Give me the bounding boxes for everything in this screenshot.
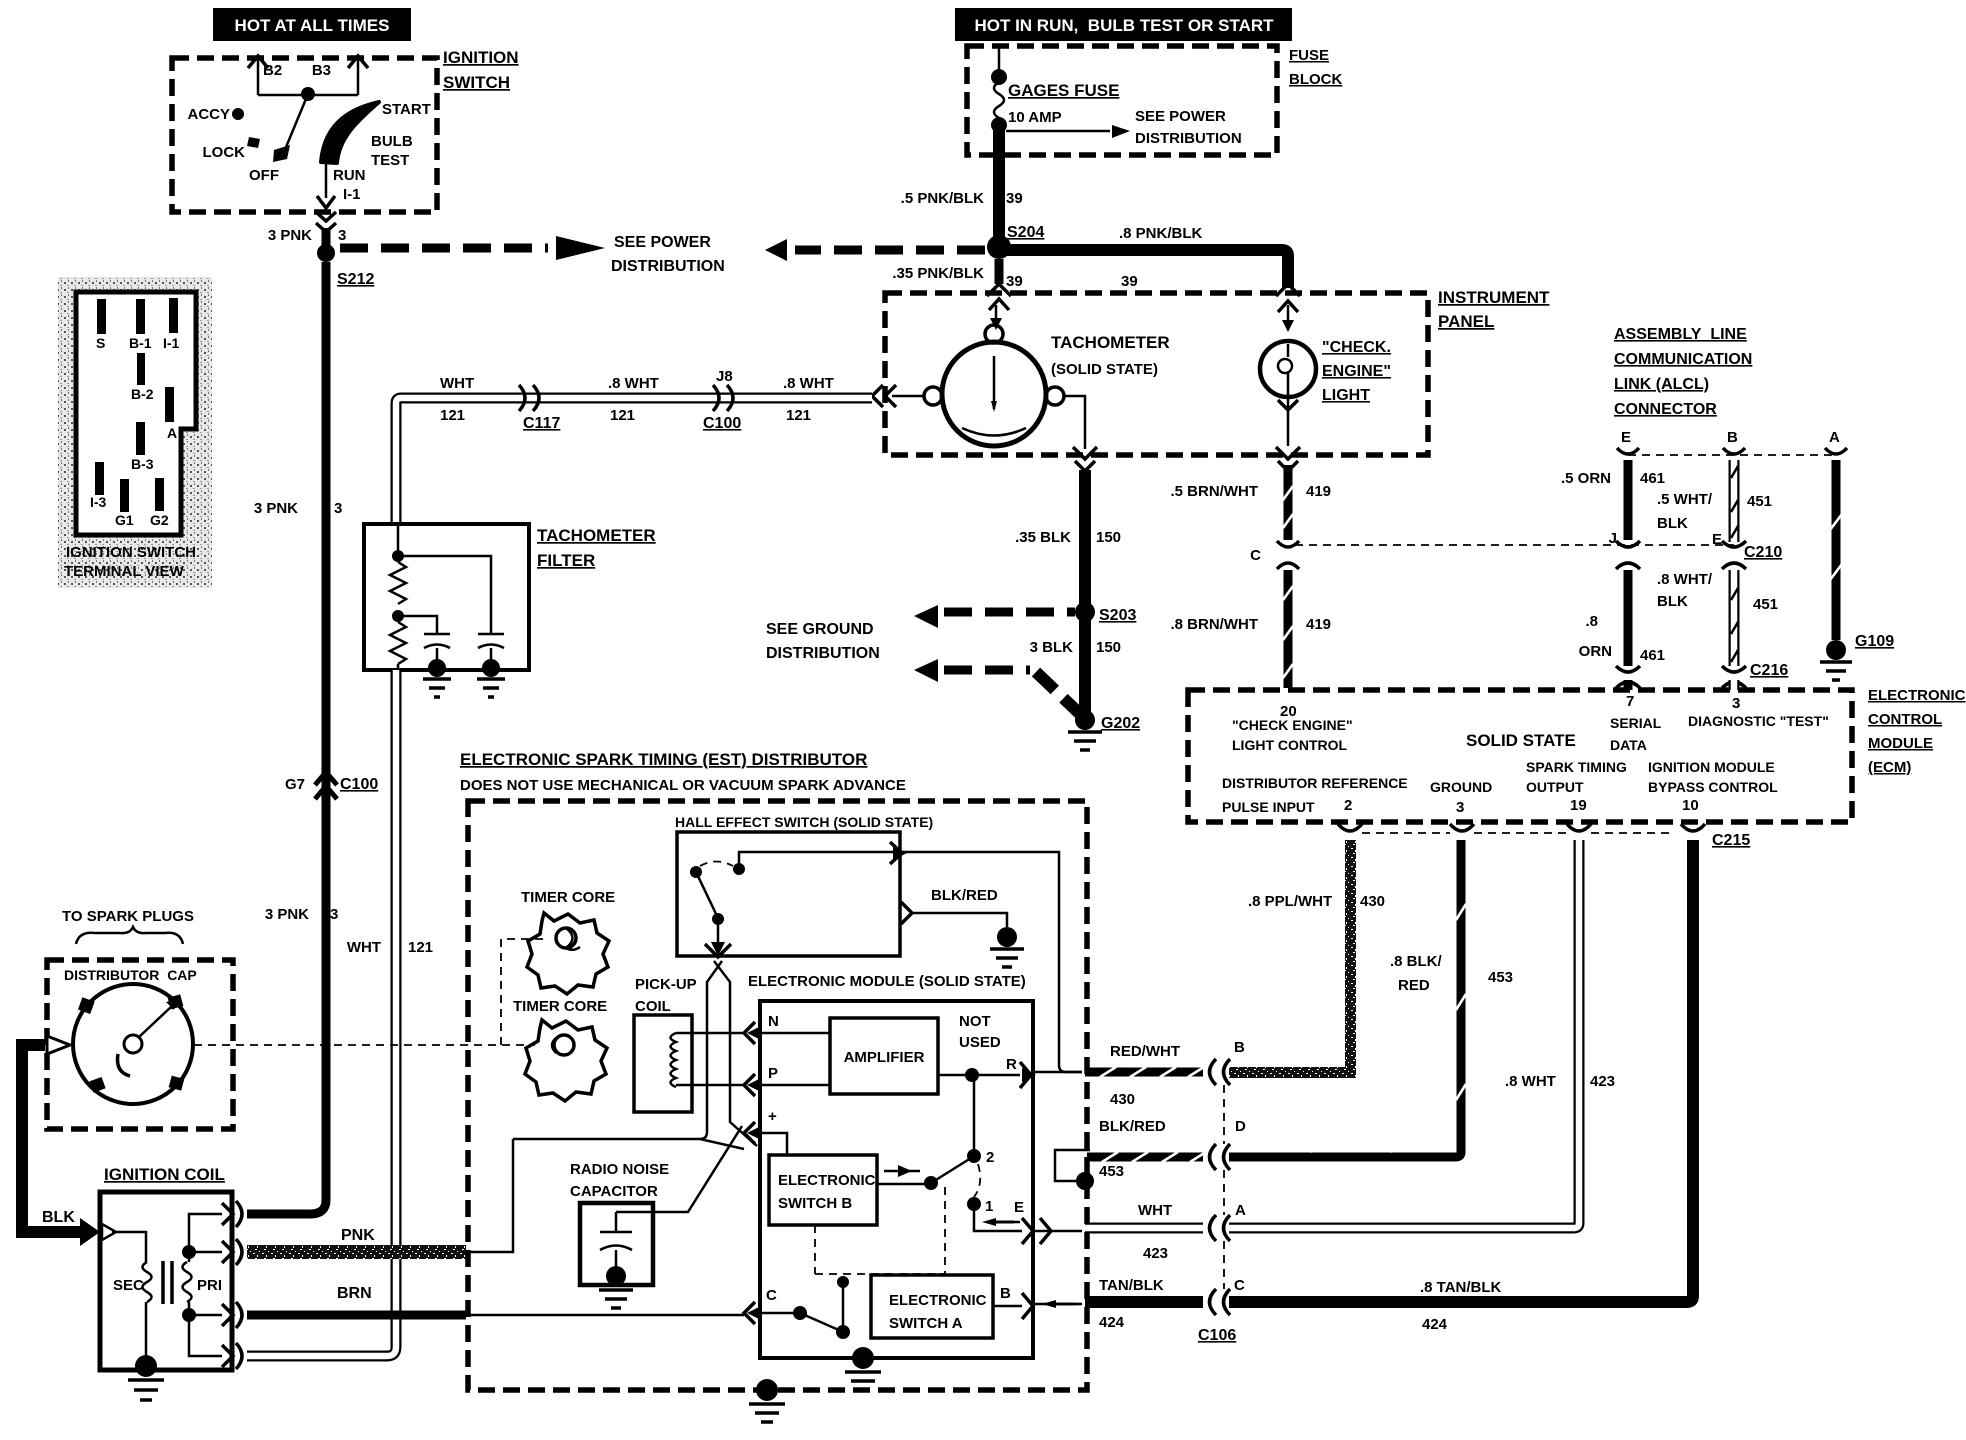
svg-text:MODULE: MODULE — [1868, 735, 1933, 752]
svg-text:"CHECK ENGINE": "CHECK ENGINE" — [1232, 717, 1353, 733]
svg-text:BULB: BULB — [371, 133, 413, 150]
svg-text:BLK: BLK — [1657, 515, 1688, 532]
svg-text:.5 WHT/: .5 WHT/ — [1657, 491, 1713, 508]
terminal view caption — [64, 544, 196, 580]
ignition coil box — [100, 1192, 232, 1370]
module plus input — [744, 1108, 787, 1155]
svg-text:3: 3 — [334, 500, 342, 517]
wire tach left to panel edge — [872, 385, 924, 407]
wire RUN to I-1 exit — [317, 163, 366, 208]
timer core dashed link — [501, 939, 544, 1045]
hot at all times label box — [213, 8, 411, 41]
svg-text:TIMER CORE: TIMER CORE — [521, 889, 615, 906]
svg-text:DISTRIBUTION: DISTRIBUTION — [1135, 130, 1242, 147]
check engine light bulb — [1260, 341, 1316, 397]
not used label — [959, 1013, 1001, 1051]
svg-text:FILTER: FILTER — [537, 551, 595, 570]
svg-text:IGNITION: IGNITION — [443, 48, 519, 67]
svg-text:DISTRIBUTOR REFERENCE: DISTRIBUTOR REFERENCE — [1222, 775, 1408, 791]
hall switch output wire top — [739, 842, 1082, 1072]
alcl chevron B — [1723, 448, 1745, 454]
svg-text:C117: C117 — [523, 415, 560, 432]
svg-text:OFF: OFF — [249, 167, 279, 184]
svg-text:TAN/BLK: TAN/BLK — [1099, 1277, 1164, 1294]
svg-text:BLOCK: BLOCK — [1289, 71, 1342, 88]
svg-text:ACCY: ACCY — [187, 106, 230, 123]
svg-text:C100: C100 — [703, 415, 741, 432]
svg-text:.5 PNK/BLK: .5 PNK/BLK — [901, 190, 985, 207]
svg-text:3 PNK: 3 PNK — [268, 227, 312, 244]
hall switch contact right — [733, 863, 745, 875]
hall switch throw arc — [700, 862, 733, 867]
timer core upper — [521, 889, 615, 994]
wire tach right down — [1064, 396, 1085, 449]
connector C106 — [1198, 1059, 1236, 1344]
wire wht down to filter — [391, 410, 402, 526]
svg-text:C100: C100 — [340, 776, 378, 793]
svg-text:10 AMP: 10 AMP — [1008, 109, 1062, 126]
tachometer body — [924, 325, 1064, 446]
contact LOCK — [247, 137, 260, 148]
see ground distribution label — [766, 621, 880, 662]
terminal A — [165, 387, 174, 422]
hall switch contact left — [690, 866, 702, 878]
rotor shaft dashed link — [194, 1044, 535, 1046]
svg-text:39: 39 — [1006, 190, 1023, 207]
svg-text:P: P — [768, 1065, 778, 1082]
svg-text:IGNITION COIL: IGNITION COIL — [104, 1165, 225, 1184]
resistor R2 filter — [390, 622, 406, 664]
svg-text:CONTROL: CONTROL — [1868, 711, 1942, 728]
svg-text:LIGHT CONTROL: LIGHT CONTROL — [1232, 737, 1348, 753]
svg-text:TEST: TEST — [371, 152, 409, 169]
svg-text:N: N — [768, 1013, 779, 1030]
svg-text:TACHOMETER: TACHOMETER — [537, 526, 656, 545]
wire .8 ppl/wht 430 — [1229, 840, 1385, 1078]
svg-text:.8 TAN/BLK: .8 TAN/BLK — [1420, 1279, 1502, 1296]
switch b throw arc — [974, 1164, 980, 1197]
terminal G2 — [155, 478, 164, 511]
est distributor title — [460, 750, 906, 794]
hall switch lever — [697, 874, 717, 916]
wire .5 orn 461 — [1561, 460, 1665, 540]
svg-text:ELECTRONIC: ELECTRONIC — [778, 1172, 876, 1189]
wire brn coil to est — [247, 1285, 466, 1315]
svg-text:B-1: B-1 — [129, 335, 152, 351]
svg-text:RUN: RUN — [333, 167, 366, 184]
svg-text:424: 424 — [1422, 1316, 1448, 1333]
svg-text:RED/WHT: RED/WHT — [1110, 1043, 1180, 1060]
svg-text:TO SPARK PLUGS: TO SPARK PLUGS — [62, 908, 194, 925]
svg-text:150: 150 — [1096, 639, 1121, 656]
ignition switch box — [172, 58, 437, 212]
wire blk alcl A to ground — [1830, 460, 1842, 640]
svg-text:3: 3 — [338, 227, 346, 244]
terminal S — [97, 299, 106, 334]
contact ACCY — [232, 108, 244, 120]
svg-text:OUTPUT: OUTPUT — [1526, 779, 1584, 795]
wire .8 tan/blk 424 — [1229, 840, 1693, 1333]
svg-text:2: 2 — [1344, 797, 1352, 814]
svg-text:IGNITION MODULE: IGNITION MODULE — [1648, 759, 1775, 775]
svg-text:3 BLK: 3 BLK — [1030, 639, 1074, 656]
wire .5 wht/blk 451 — [1657, 460, 1772, 542]
svg-text:G202: G202 — [1101, 715, 1140, 732]
svg-text:SEE POWER: SEE POWER — [1135, 108, 1226, 125]
svg-text:RED: RED — [1398, 977, 1430, 994]
svg-text:COMMUNICATION: COMMUNICATION — [1614, 351, 1752, 368]
node fuse top — [991, 69, 1007, 85]
radio noise capacitor element — [599, 1212, 633, 1308]
est distributor box — [468, 801, 1087, 1390]
wire 3 blk 150 — [1030, 612, 1121, 716]
svg-text:R: R — [1006, 1056, 1017, 1073]
tachometer filter label — [537, 526, 656, 570]
bulb test start crescent — [321, 102, 379, 163]
svg-text:GAGES FUSE: GAGES FUSE — [1008, 81, 1119, 100]
svg-text:.8 BRN/WHT: .8 BRN/WHT — [1171, 616, 1259, 633]
twisted pair into plus input — [513, 1126, 744, 1212]
coil core — [163, 1261, 172, 1304]
distributor cap box — [47, 960, 233, 1129]
wire wht 121 down to coil — [247, 670, 433, 1356]
alcl chevron E — [1617, 448, 1639, 454]
connector C117 — [519, 385, 560, 432]
svg-text:BRN: BRN — [337, 1285, 372, 1302]
wire .8 wht/blk 451 — [1657, 570, 1778, 666]
svg-text:CAPACITOR: CAPACITOR — [570, 1183, 658, 1200]
wire to tach top — [990, 305, 1002, 330]
hall switch bottom wire — [705, 925, 731, 957]
wire bus B2-B3 — [258, 94, 358, 97]
svg-text:.8 WHT: .8 WHT — [1505, 1073, 1556, 1090]
svg-text:+: + — [768, 1108, 777, 1125]
wire .8 orn 461 — [1579, 570, 1665, 666]
ignition switch terminal view stipple background — [58, 277, 212, 588]
svg-text:SEE POWER: SEE POWER — [614, 234, 711, 251]
svg-text:B2: B2 — [263, 62, 282, 79]
wire .8 wht 423 — [1229, 840, 1615, 1228]
svg-text:SOLID STATE: SOLID STATE — [1466, 731, 1576, 750]
terminal B2 — [248, 56, 282, 95]
svg-text:PULSE INPUT: PULSE INPUT — [1222, 799, 1315, 815]
coil terminal 2 chevron — [222, 1239, 242, 1265]
svg-text:.8 WHT: .8 WHT — [783, 375, 834, 392]
svg-text:PNK: PNK — [341, 1227, 375, 1244]
svg-text:121: 121 — [786, 407, 811, 424]
svg-text:3: 3 — [1732, 695, 1740, 712]
instrument panel label — [1438, 288, 1550, 331]
ecm distributor reference pulse input pin 2 — [1222, 775, 1408, 815]
connector chevrons tach ground exit — [1073, 447, 1097, 471]
svg-text:.35 BLK: .35 BLK — [1015, 529, 1071, 546]
svg-text:.5 BRN/WHT: .5 BRN/WHT — [1171, 483, 1259, 500]
power distribution arrow from S204 — [765, 239, 985, 261]
see power distribution note — [1135, 108, 1242, 147]
svg-text:ELECTRONIC SPARK TIMING (EST): ELECTRONIC SPARK TIMING (EST) DISTRIBUTO… — [460, 750, 867, 769]
svg-text:LOCK: LOCK — [203, 144, 246, 161]
svg-text:461: 461 — [1640, 647, 1665, 664]
svg-text:.8 WHT: .8 WHT — [608, 375, 659, 392]
ecm pin 7 serial data — [1610, 693, 1662, 753]
wire 3 pnk main feed — [247, 262, 342, 1214]
svg-text:3 PNK: 3 PNK — [254, 500, 298, 517]
svg-text:S212: S212 — [337, 271, 374, 288]
svg-text:SWITCH B: SWITCH B — [778, 1195, 852, 1212]
ecm ignition module bypass control pin 10 — [1648, 759, 1778, 814]
svg-text:DISTRIBUTION: DISTRIBUTION — [766, 645, 880, 662]
svg-text:S: S — [96, 335, 105, 351]
svg-text:10: 10 — [1682, 797, 1699, 814]
ecm box — [1188, 690, 1852, 822]
capacitor C1 filter — [398, 616, 451, 697]
svg-text:DISTRIBUTOR CAP: DISTRIBUTOR CAP — [64, 967, 197, 983]
switch mechanical dashed links — [815, 1187, 945, 1274]
svg-text:150: 150 — [1096, 529, 1121, 546]
svg-text:BLK/RED: BLK/RED — [1099, 1118, 1166, 1135]
svg-text:DOES NOT USE MECHANICAL OR VAC: DOES NOT USE MECHANICAL OR VACUUM SPARK … — [460, 777, 906, 794]
svg-text:PICK-UP: PICK-UP — [635, 976, 697, 993]
fuse block label — [1289, 47, 1342, 88]
svg-text:E: E — [1014, 1199, 1024, 1216]
svg-text:CONNECTOR: CONNECTOR — [1614, 401, 1717, 418]
wire blk coil to cap — [16, 1045, 100, 1246]
svg-text:3: 3 — [330, 906, 338, 923]
svg-text:39: 39 — [1006, 273, 1023, 290]
wire 3 PNK from ignition switch — [322, 228, 331, 253]
svg-text:SWITCH: SWITCH — [443, 73, 510, 92]
see power distribution label — [611, 234, 725, 275]
switch b contact 1 — [967, 1197, 993, 1215]
svg-text:DATA: DATA — [1610, 737, 1647, 753]
radio noise capacitor box — [580, 1203, 653, 1285]
svg-text:S204: S204 — [1007, 224, 1044, 241]
svg-text:430: 430 — [1110, 1091, 1135, 1108]
svg-text:.8 WHT/: .8 WHT/ — [1657, 571, 1713, 588]
node filter mid — [392, 610, 404, 622]
svg-text:TACHOMETER: TACHOMETER — [1051, 333, 1170, 352]
svg-text:HALL EFFECT SWITCH (SOLID STAT: HALL EFFECT SWITCH (SOLID STATE) — [675, 814, 933, 830]
svg-text:.8 PPL/WHT: .8 PPL/WHT — [1248, 893, 1332, 910]
svg-text:BLK: BLK — [42, 1209, 75, 1226]
svg-text:COIL: COIL — [635, 998, 671, 1015]
svg-text:G7: G7 — [285, 776, 305, 793]
svg-text:D: D — [1235, 1118, 1246, 1135]
connector C215 — [1338, 824, 1750, 849]
svg-text:E: E — [1621, 429, 1631, 446]
terminal B-2 — [137, 353, 145, 385]
svg-text:E: E — [1712, 531, 1722, 548]
coil input terminal — [102, 1224, 116, 1240]
wire .8 brn/wht 419 — [1171, 570, 1332, 688]
svg-text:.8 BLK/: .8 BLK/ — [1390, 953, 1443, 970]
svg-text:121: 121 — [440, 407, 465, 424]
svg-text:RADIO NOISE: RADIO NOISE — [570, 1161, 669, 1178]
filter internal wire — [397, 524, 400, 552]
svg-text:C: C — [1250, 547, 1261, 564]
module input N — [744, 1013, 779, 1044]
pick-up coil box — [634, 1015, 692, 1112]
svg-text:J: J — [1609, 530, 1617, 547]
svg-text:SERIAL: SERIAL — [1610, 715, 1662, 731]
ecm ground pin 3 — [1430, 779, 1492, 816]
svg-text:WHT: WHT — [347, 939, 381, 956]
connector C216 — [1616, 662, 1788, 688]
svg-text:1: 1 — [985, 1198, 993, 1215]
ground G202 — [1068, 710, 1140, 750]
svg-text:ORN: ORN — [1579, 643, 1612, 660]
pick-up coil winding — [671, 1033, 677, 1087]
svg-text:HOT AT ALL TIMES: HOT AT ALL TIMES — [235, 16, 390, 35]
wire wht/blk into ecm pin3 — [1729, 680, 1740, 690]
svg-text:BYPASS CONTROL: BYPASS CONTROL — [1648, 779, 1778, 795]
module ground — [845, 1347, 881, 1390]
cap contact upper right — [168, 994, 184, 1009]
connector C100 on wht — [703, 368, 741, 432]
wire into fuse — [998, 46, 1001, 75]
hall blk/red ground — [990, 927, 1024, 967]
cap contact upper left — [78, 997, 95, 1014]
svg-text:C210: C210 — [1744, 544, 1782, 561]
switch b wire and pivot — [877, 1158, 971, 1190]
pick-up coil wire N — [676, 1032, 744, 1035]
svg-text:C: C — [766, 1287, 777, 1304]
svg-text:ELECTRONIC: ELECTRONIC — [1868, 687, 1966, 704]
terminal B-1 — [136, 299, 145, 334]
wire wht 121 horizontal run — [396, 375, 872, 424]
svg-text:.8: .8 — [1585, 613, 1598, 630]
terminal I-3 — [95, 462, 104, 495]
node fuse bottom — [991, 117, 1007, 133]
hot in run bulb test or start label box — [955, 8, 1292, 41]
svg-text:BLK: BLK — [1657, 593, 1688, 610]
check engine light label — [1322, 339, 1391, 404]
svg-text:AMPLIFIER: AMPLIFIER — [844, 1049, 925, 1066]
arrow to power distribution — [1006, 125, 1130, 138]
alcl face line — [1628, 454, 1836, 456]
svg-text:DISTRIBUTION: DISTRIBUTION — [611, 258, 725, 275]
svg-text:PANEL: PANEL — [1438, 312, 1494, 331]
svg-text:19: 19 — [1570, 797, 1587, 814]
cap contact lower right — [169, 1076, 185, 1091]
wire P to amplifier — [762, 1084, 830, 1087]
ecm pin 3 diagnostic test — [1688, 695, 1829, 729]
wire .35 pnk/blk 39 to panel — [995, 259, 1004, 284]
coil ground — [128, 1355, 164, 1400]
wire pnk coil to est — [247, 1227, 466, 1259]
svg-text:419: 419 — [1306, 483, 1331, 500]
svg-text:2: 2 — [986, 1149, 994, 1166]
ecm pin 20 check engine light control — [1232, 703, 1353, 753]
electronic switch a box — [871, 1275, 993, 1338]
svg-text:TERMINAL VIEW: TERMINAL VIEW — [64, 563, 185, 580]
svg-text:USED: USED — [959, 1034, 1001, 1051]
svg-text:423: 423 — [1143, 1245, 1168, 1262]
wire brn into est — [466, 1314, 744, 1317]
electronic module box — [760, 1001, 1033, 1358]
svg-text:ENGINE": ENGINE" — [1322, 363, 1391, 380]
svg-text:SPARK TIMING: SPARK TIMING — [1526, 759, 1627, 775]
splice S203 — [1075, 602, 1095, 622]
check engine light exit chevron — [1276, 393, 1300, 471]
wire .35 blk 150 — [1015, 470, 1121, 606]
svg-text:PRI: PRI — [197, 1277, 222, 1294]
connector chevrons tach feed at panel top — [987, 284, 1011, 310]
svg-text:SEE GROUND: SEE GROUND — [766, 621, 874, 638]
module input C — [744, 1287, 797, 1324]
wire wht 423 row — [1085, 1202, 1246, 1262]
svg-text:451: 451 — [1753, 596, 1778, 613]
splice S204 — [987, 235, 1011, 259]
ecm spark timing output pin 19 — [1526, 759, 1627, 814]
est housing ground — [749, 1379, 785, 1422]
node filter top — [392, 550, 404, 562]
svg-text:J8: J8 — [716, 368, 733, 385]
radio noise capacitor label — [570, 1161, 669, 1200]
timer core lower — [513, 998, 607, 1101]
coil pri winding — [183, 1262, 223, 1302]
svg-text:.8 PNK/BLK: .8 PNK/BLK — [1119, 225, 1203, 242]
svg-text:I-1: I-1 — [343, 186, 361, 203]
distributor cap body — [73, 984, 193, 1104]
fuse block box — [967, 46, 1277, 155]
switch lever to OFF — [284, 94, 308, 152]
gages fuse element — [994, 82, 1004, 118]
svg-text:I-1: I-1 — [163, 335, 180, 351]
ignition switch label — [443, 48, 519, 92]
svg-text:(ECM): (ECM) — [1868, 759, 1911, 776]
svg-text:7: 7 — [1626, 693, 1634, 710]
svg-text:453: 453 — [1488, 969, 1513, 986]
svg-text:424: 424 — [1099, 1314, 1125, 1331]
svg-text:TIMER CORE: TIMER CORE — [513, 998, 607, 1015]
coil pri bottom node — [182, 1308, 196, 1322]
svg-text:INSTRUMENT: INSTRUMENT — [1438, 288, 1550, 307]
coil sec winding — [112, 1232, 152, 1360]
pick-up coil label — [635, 976, 697, 1015]
svg-text:LINK (ALCL): LINK (ALCL) — [1614, 376, 1709, 393]
wire tan/blk 424 row — [1085, 1277, 1245, 1331]
hall switch moving contact — [712, 913, 724, 925]
coil pri top node — [182, 1245, 196, 1259]
svg-text:453: 453 — [1099, 1163, 1124, 1180]
svg-text:I-3: I-3 — [90, 494, 107, 510]
module input P — [744, 1065, 778, 1096]
svg-text:ASSEMBLY LINE: ASSEMBLY LINE — [1614, 326, 1747, 343]
connector J on orn wire — [1609, 530, 1640, 569]
svg-text:B-3: B-3 — [131, 456, 154, 472]
svg-text:G109: G109 — [1855, 633, 1894, 650]
wire blk/red 453 to est case — [1055, 1118, 1246, 1190]
svg-text:S203: S203 — [1099, 607, 1136, 624]
connector J / C210 dashed line — [1295, 544, 1734, 546]
svg-text:ELECTRONIC MODULE (SOLID STATE: ELECTRONIC MODULE (SOLID STATE) — [748, 973, 1026, 990]
pick-up coil wire P — [676, 1084, 744, 1087]
capacitor C2 filter — [398, 556, 505, 697]
switch b contact 2 — [967, 1075, 994, 1166]
twisted pair below hall — [700, 961, 757, 1146]
amplifier box — [830, 1018, 938, 1094]
coil terminal 3 chevron — [222, 1302, 242, 1328]
svg-text:IGNITION SWITCH: IGNITION SWITCH — [66, 544, 196, 561]
coil terminal 1 chevron — [222, 1201, 242, 1227]
svg-text:A: A — [167, 425, 177, 441]
svg-text:NOT: NOT — [959, 1013, 991, 1030]
rotor — [118, 1000, 177, 1076]
svg-text:419: 419 — [1306, 616, 1331, 633]
svg-text:SEC: SEC — [113, 1277, 144, 1294]
svg-text:.5 ORN: .5 ORN — [1561, 470, 1611, 487]
